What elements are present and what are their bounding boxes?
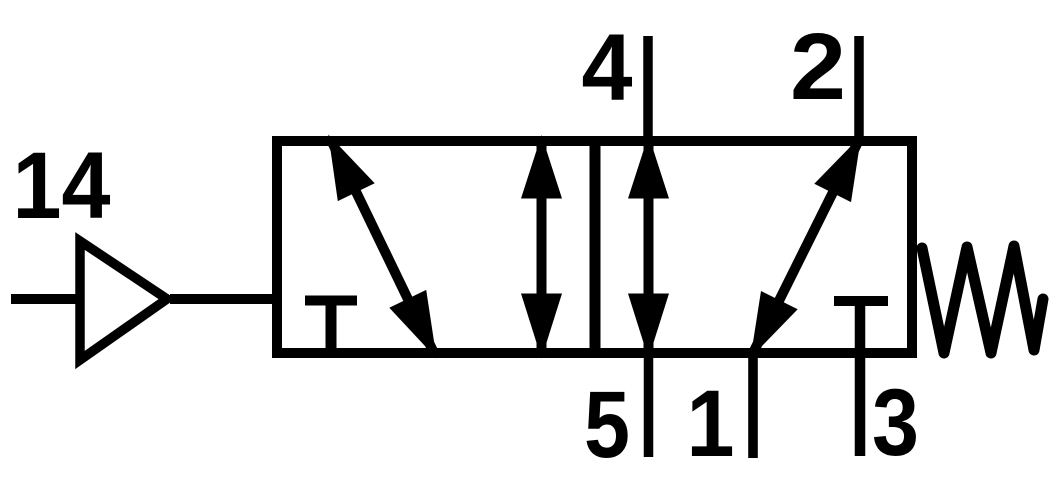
label 14 (pilot port) — [13, 133, 111, 239]
left chamber: vertical flow path double arrow — [521, 135, 562, 359]
right chamber: diagonal flow path double arrow (1 to 2) — [751, 136, 862, 358]
svg-text:1: 1 — [687, 371, 735, 477]
wire: pilot output to valve body — [170, 294, 277, 304]
right chamber: blocked port T symbol (port 3) — [834, 296, 888, 306]
label 2 — [790, 14, 846, 120]
port 4 line — [643, 36, 653, 146]
left chamber: blocked port T symbol — [305, 301, 357, 351]
svg-text:2: 2 — [790, 14, 846, 120]
left chamber: diagonal flow path double arrow — [328, 135, 436, 359]
valve body: 5/2-way valve outer rectangle — [277, 141, 912, 353]
svg-text:3: 3 — [872, 370, 919, 476]
right chamber: vertical flow path double arrow (4 to 5) — [628, 135, 669, 359]
wire: pilot input line 14 — [11, 294, 84, 304]
svg-text:5: 5 — [584, 372, 630, 478]
label 4 — [582, 15, 633, 121]
port 3 line (stem of blocked T) — [855, 301, 866, 456]
label 3 — [872, 370, 919, 476]
port 5 line — [644, 348, 654, 457]
label 5 — [584, 372, 630, 478]
return spring — [922, 246, 1043, 353]
port 2 line — [854, 36, 864, 146]
svg-text:14: 14 — [13, 133, 111, 239]
valve chamber divider — [590, 141, 601, 353]
pilot actuator: pneumatic pilot triangle — [80, 241, 167, 360]
label 1 — [687, 371, 735, 477]
port 1 line — [748, 348, 758, 458]
svg-text:4: 4 — [582, 15, 633, 121]
